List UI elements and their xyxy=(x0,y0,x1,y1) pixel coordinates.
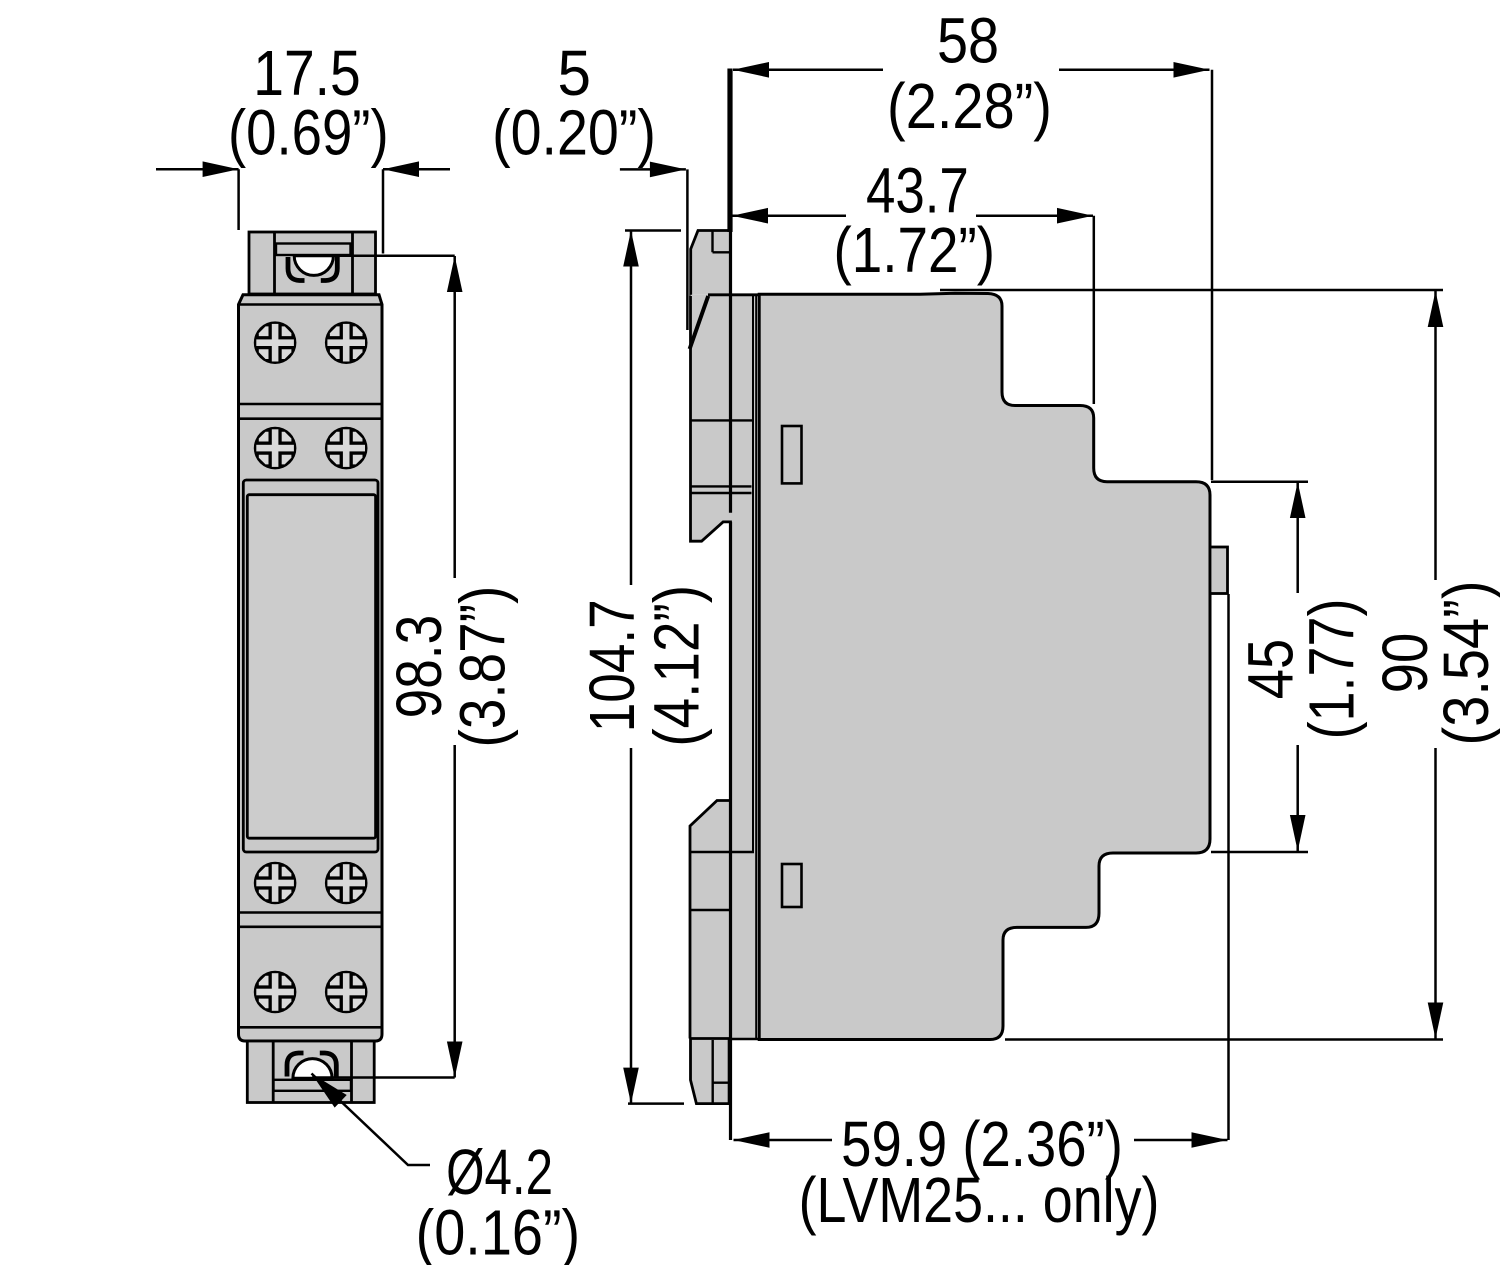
upper rail tab xyxy=(691,231,730,295)
side view main body xyxy=(759,293,1210,1039)
top clip white half-hole xyxy=(294,256,333,276)
dim 59.9 lines xyxy=(734,594,1229,1140)
front body neck line xyxy=(239,303,382,306)
strip edge lines xyxy=(753,295,756,1040)
svg-text:(LVM25... only): (LVM25... only) xyxy=(799,1164,1160,1236)
screw row 2 left xyxy=(254,427,297,470)
side body window slot lower xyxy=(782,864,802,907)
label window outer xyxy=(243,480,378,852)
svg-text:(4.12”): (4.12”) xyxy=(641,585,713,747)
bottom clip left spring arm xyxy=(287,1053,304,1077)
lower clip jaw outline xyxy=(690,801,730,1039)
upper rail tab inner line xyxy=(713,231,730,252)
screw row 3 left xyxy=(254,862,297,905)
dim 90 text (rotated) xyxy=(1369,581,1500,746)
front view module body xyxy=(239,295,383,1041)
screw row 3 right xyxy=(325,862,368,905)
bottom DIN clip block xyxy=(247,1041,374,1103)
screw row 2 right xyxy=(325,427,368,470)
svg-text:98.3: 98.3 xyxy=(383,615,455,719)
side body top edge line under tab xyxy=(708,293,758,296)
hole diameter leader xyxy=(312,1074,431,1166)
dim 45 arrows xyxy=(1290,482,1306,518)
upper clip jaw outline xyxy=(690,296,709,349)
screw row 4 left xyxy=(254,971,297,1014)
front body divider band 2 xyxy=(239,913,383,927)
svg-text:104.7: 104.7 xyxy=(576,599,648,732)
dim 104.7 arrows xyxy=(623,231,639,267)
bottom rail tab inner line xyxy=(713,1040,729,1103)
svg-text:(1.77): (1.77) xyxy=(1296,599,1368,740)
svg-text:(0.16”): (0.16”) xyxy=(416,1197,581,1265)
label window inner xyxy=(247,495,375,839)
svg-text:58: 58 xyxy=(937,5,999,77)
dim 58 lines xyxy=(733,70,1212,480)
screw row 1 right xyxy=(325,321,368,364)
dim 17.5 lines xyxy=(156,169,450,253)
front body divider band 1 xyxy=(239,404,383,419)
side body right small tab xyxy=(1210,547,1228,594)
screw row 4 right xyxy=(325,971,368,1014)
bottom clip slider bar xyxy=(274,1080,352,1091)
screw row 1 left xyxy=(254,321,297,364)
top clip right spring arm xyxy=(321,257,338,281)
svg-text:(1.72”): (1.72”) xyxy=(834,214,996,286)
lower clip internal lines xyxy=(690,852,758,1039)
dim 104.7 lines xyxy=(625,231,684,1104)
dim 98.3 text (rotated) xyxy=(383,586,519,748)
dim 45 text (rotated) xyxy=(1235,599,1368,740)
upper clip jaw xyxy=(691,295,732,541)
top clip left spring arm xyxy=(288,257,305,281)
front body bottom band line xyxy=(239,1026,383,1029)
svg-text:(3.54”): (3.54”) xyxy=(1430,581,1500,746)
clip internal lines xyxy=(690,420,754,493)
bottom clip white half-hole xyxy=(293,1059,332,1079)
dim 98.3 lines xyxy=(311,256,455,1078)
dim 17.5 arrows xyxy=(203,161,239,177)
dim 90 lines xyxy=(940,290,1443,1040)
DIN groove strip xyxy=(730,295,756,1040)
dim 45 lines xyxy=(1211,482,1308,852)
svg-text:(2.28”): (2.28”) xyxy=(887,70,1052,142)
dim 5 arrow xyxy=(650,162,686,178)
dim 43.7 lines xyxy=(732,216,1094,404)
dim 5 lines xyxy=(620,169,688,330)
svg-text:(0.20”): (0.20”) xyxy=(492,97,656,169)
svg-text:(0.69”): (0.69”) xyxy=(228,97,389,169)
dim 104.7 text (rotated) xyxy=(576,585,713,747)
dim 59.9 arrows xyxy=(734,1132,770,1148)
dim 90 arrows xyxy=(1428,291,1444,327)
bottom rail tab xyxy=(691,1039,730,1104)
thick reference line xyxy=(727,69,732,233)
lower clip jaw xyxy=(690,801,730,1039)
svg-text:(3.87”): (3.87”) xyxy=(447,586,519,748)
bottom clip right spring arm xyxy=(320,1053,337,1077)
top DIN clip block xyxy=(249,232,376,294)
dim 98.3 arrows xyxy=(447,256,463,292)
reference line continuation xyxy=(729,232,732,1140)
side body window slot upper xyxy=(782,426,802,483)
dim 58 arrows xyxy=(733,62,769,78)
dim 43.7 arrows xyxy=(732,208,768,224)
